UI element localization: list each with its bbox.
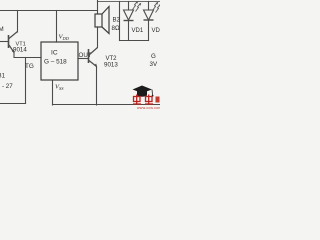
wire speaker to VT2 collector [97, 27, 99, 48]
LED VD2 [144, 10, 154, 20]
IC U1 G-518 sound chip box [41, 42, 78, 80]
wire VD2 anode stub [148, 2, 150, 11]
wire top edge rail [98, 1, 161, 3]
wire TG input [14, 53, 41, 58]
svg-text:8Ω: 8Ω [112, 25, 120, 32]
svg-text:OUT: OUT [79, 52, 92, 59]
svg-text:G: G [151, 53, 156, 60]
wire VD1 anode stub [128, 2, 130, 11]
wire B1 bottom lead [0, 103, 26, 105]
svg-text:3V: 3V [150, 61, 158, 68]
wire VT2 emitter vertical [96, 67, 98, 106]
svg-text:G – 518: G – 518 [44, 59, 67, 66]
transistor Q1 VT1 9014 [9, 32, 18, 53]
svg-text:9014: 9014 [13, 47, 27, 54]
wire VDD pin [56, 11, 58, 43]
wire LED cathode rail [120, 40, 149, 42]
svg-text:www.ccw.com: www.ccw.com [137, 106, 160, 110]
watermark small red mark [156, 97, 160, 103]
wire OUT to VT2 base [78, 58, 89, 60]
watermark logo graduation cap [133, 86, 154, 97]
wire VD1 cathode stub [128, 21, 130, 41]
wire LED branch left vertical [119, 2, 121, 41]
svg-text:VD2: VD2 [152, 28, 161, 34]
watermark red characters [133, 95, 153, 105]
wire bottom VSS rail [53, 104, 161, 106]
transistor Q2 VT2 9013 [89, 48, 98, 67]
wire VSS pin [52, 80, 54, 105]
speaker B2 [95, 7, 109, 34]
svg-text:- 27: - 27 [2, 83, 13, 90]
svg-text:TG: TG [25, 63, 34, 70]
wire speaker feed vertical [97, 0, 99, 14]
wire VT1 base lead [0, 41, 8, 43]
svg-text:9013: 9013 [104, 62, 118, 69]
svg-text:IC: IC [51, 50, 58, 57]
svg-text:M: M [0, 26, 4, 33]
svg-text:B2: B2 [113, 18, 121, 24]
wire top VDD rail [0, 10, 98, 12]
svg-text:VD1: VD1 [132, 28, 144, 34]
wire B1 branch vertical [25, 58, 27, 104]
svg-text:B1: B1 [0, 73, 6, 80]
LED VD1 [124, 10, 134, 21]
wire VT1 collector vertical [17, 11, 19, 33]
wire VD2 cathode stub [148, 20, 150, 41]
